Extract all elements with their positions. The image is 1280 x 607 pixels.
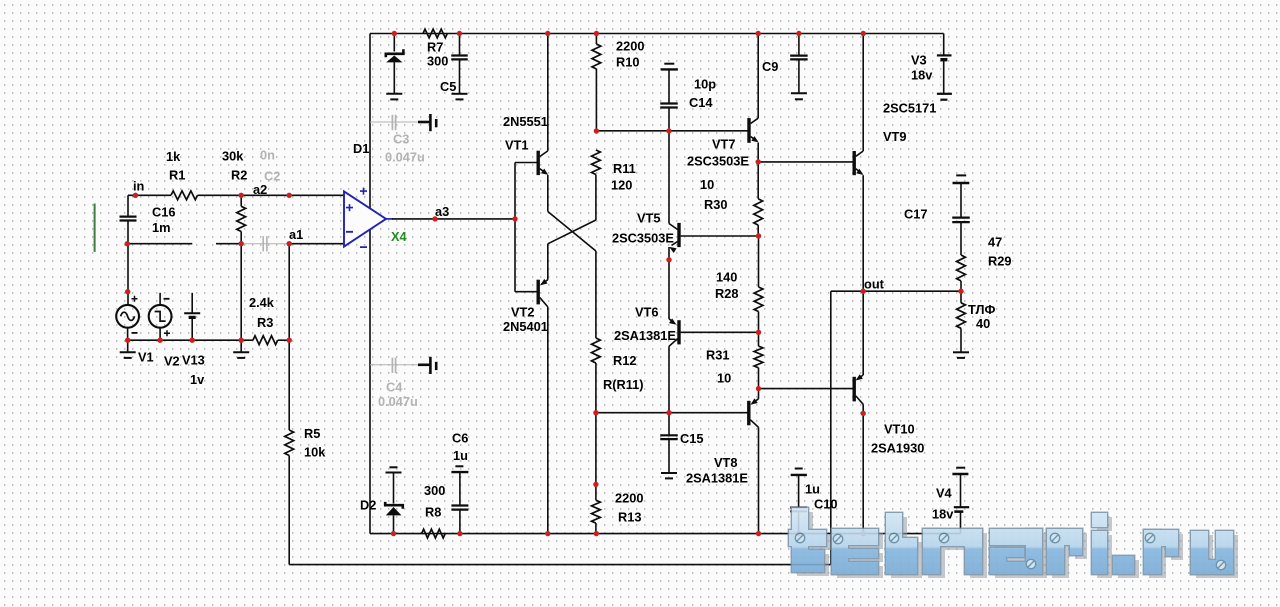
svg-text:2SA1930: 2SA1930 xyxy=(871,441,924,456)
resistor R12 xyxy=(592,338,601,363)
svg-text:C6: C6 xyxy=(452,431,468,446)
svg-text:2200: 2200 xyxy=(616,39,644,54)
resistor R10 xyxy=(595,34,597,45)
svg-text:2SA1381E: 2SA1381E xyxy=(614,328,676,343)
svg-text:R12: R12 xyxy=(613,353,636,368)
op-amp X4 xyxy=(344,191,386,246)
capacitor C15 xyxy=(668,413,670,436)
svg-text:10k: 10k xyxy=(304,445,326,460)
svg-text:C3: C3 xyxy=(393,132,409,147)
wire VT1 emitter cross to R12 xyxy=(548,212,596,252)
battery V4 xyxy=(956,467,965,469)
label V2 plus xyxy=(164,330,170,336)
wire V1 column xyxy=(127,244,129,306)
resistor R31 xyxy=(758,332,760,346)
wire input line in-R1-R2-a2 to op-amp xyxy=(128,194,171,196)
resistor R1 xyxy=(171,191,198,200)
svg-text:VT5: VT5 xyxy=(637,211,660,226)
resistor R30 xyxy=(757,162,759,199)
transistor VT10 2SA1930 xyxy=(853,377,856,402)
ground under V1 xyxy=(127,340,129,352)
resistor TLF 40 xyxy=(960,291,962,303)
svg-text:18v: 18v xyxy=(932,507,954,522)
svg-text:10: 10 xyxy=(717,371,731,386)
svg-text:1m: 1m xyxy=(152,220,171,235)
svg-text:C17: C17 xyxy=(904,207,927,222)
svg-text:VT1: VT1 xyxy=(505,138,528,153)
svg-text:VT9: VT9 xyxy=(883,129,906,144)
wire ground rail lower-left xyxy=(128,339,253,341)
wire left supply column xyxy=(369,34,371,534)
junction dots xyxy=(392,31,397,36)
wire VT5 emitter to VT6 xyxy=(668,260,670,319)
svg-text:2N5551: 2N5551 xyxy=(503,114,548,129)
svg-text:V2: V2 xyxy=(164,354,180,369)
capacitor C9 xyxy=(798,34,800,56)
wire V2 stub xyxy=(159,293,161,305)
svg-text:1k: 1k xyxy=(166,149,181,164)
svg-text:2.4k: 2.4k xyxy=(249,295,275,310)
capacitor C5 xyxy=(459,34,461,56)
svg-text:VT10: VT10 xyxy=(884,422,915,437)
wire VT8 emitter node to VT10 base xyxy=(759,388,853,390)
wire VT6 base to R31 node xyxy=(681,331,759,333)
svg-text:R13: R13 xyxy=(618,510,641,525)
transistor VT2 2N5401 xyxy=(537,280,540,305)
svg-text:VT2: VT2 xyxy=(511,305,534,320)
svg-text:R3: R3 xyxy=(257,315,273,330)
resistor R3 xyxy=(253,336,278,345)
svg-text:R11: R11 xyxy=(613,161,636,176)
svg-text:R(R11): R(R11) xyxy=(603,377,644,392)
svg-text:18v: 18v xyxy=(911,68,933,83)
wire feedback column up xyxy=(830,291,832,564)
svg-text:R8: R8 xyxy=(425,505,441,520)
svg-text:ТЛФ: ТЛФ xyxy=(968,302,995,317)
svg-text:10p: 10p xyxy=(694,77,716,92)
svg-text:C14: C14 xyxy=(689,95,713,110)
ground under TLF xyxy=(953,351,969,353)
source V2 step xyxy=(149,305,172,328)
svg-text:R31: R31 xyxy=(706,348,729,363)
resistor R29 xyxy=(957,255,966,281)
capacitor C4 disabled gray with terminal xyxy=(370,364,418,366)
wire R11 bottom cross to VT2 xyxy=(595,175,597,221)
svg-text:120: 120 xyxy=(611,178,632,193)
svg-text:C10: C10 xyxy=(814,497,837,512)
svg-text:C16: C16 xyxy=(152,205,175,220)
capacitor C16 xyxy=(127,195,129,216)
svg-text:30k: 30k xyxy=(222,149,244,164)
svg-text:2N5401: 2N5401 xyxy=(503,319,548,334)
svg-text:a1: a1 xyxy=(289,227,303,242)
diode D1 zener xyxy=(393,34,395,52)
svg-text:R2: R2 xyxy=(231,168,247,183)
svg-text:D1: D1 xyxy=(353,141,369,156)
wire top supply rail xyxy=(370,33,944,35)
ground at R3 node xyxy=(240,340,242,352)
svg-text:47: 47 xyxy=(988,235,1002,250)
svg-text:V13: V13 xyxy=(182,353,205,368)
transistor VT1 2N5551 xyxy=(537,151,540,175)
svg-text:X4: X4 xyxy=(391,229,408,244)
wire a1 line segments xyxy=(128,243,192,245)
wire out line xyxy=(831,290,961,292)
wire R12 node to R13 xyxy=(595,413,597,501)
svg-text:140: 140 xyxy=(716,270,737,285)
resistor R7 xyxy=(423,29,447,38)
battery V13 xyxy=(191,293,193,313)
watermark tehnari.ru xyxy=(788,507,1238,578)
svg-text:D2: D2 xyxy=(360,498,376,513)
resistor R13 xyxy=(592,500,601,523)
svg-text:2SA1381E: 2SA1381E xyxy=(686,471,748,486)
svg-text:R28: R28 xyxy=(715,286,738,301)
label V2 minus xyxy=(164,298,170,300)
svg-text:2SC3503E: 2SC3503E xyxy=(612,231,674,246)
svg-text:C15: C15 xyxy=(680,431,703,446)
node green marker line xyxy=(94,204,96,252)
svg-text:R30: R30 xyxy=(704,197,727,212)
capacitor C3 disabled gray with terminal xyxy=(370,121,418,123)
transistor VT6 2SA1381E xyxy=(669,319,672,321)
svg-text:a2: a2 xyxy=(253,182,267,197)
svg-text:V4: V4 xyxy=(936,486,953,501)
resistor R8 xyxy=(422,529,446,538)
capacitor C6 xyxy=(455,465,463,467)
svg-text:2SC3503E: 2SC3503E xyxy=(687,154,749,169)
capacitor C2 disabled gray xyxy=(241,243,289,245)
svg-text:C4: C4 xyxy=(386,380,403,395)
svg-text:V1: V1 xyxy=(138,350,154,365)
svg-text:C5: C5 xyxy=(440,79,456,94)
transistor VT9 2SC5171 xyxy=(853,151,856,175)
svg-text:VT7: VT7 xyxy=(712,137,735,152)
wire rail y413 xyxy=(596,412,748,414)
svg-text:in: in xyxy=(133,179,145,194)
svg-text:40: 40 xyxy=(976,316,990,331)
wire op-amp output a3 xyxy=(392,218,515,220)
svg-text:0.047u: 0.047u xyxy=(385,150,425,165)
wire bottom supply rail xyxy=(370,533,961,535)
battery V3 xyxy=(943,34,945,56)
resistor R28 xyxy=(758,236,760,287)
svg-text:C9: C9 xyxy=(762,59,778,74)
svg-text:2SC5171: 2SC5171 xyxy=(883,101,936,116)
svg-text:1u: 1u xyxy=(453,448,468,463)
svg-text:a3: a3 xyxy=(435,204,449,219)
svg-text:VT8: VT8 xyxy=(714,455,737,470)
resistor R5 xyxy=(285,430,294,456)
wire VT5 base to R30 node xyxy=(681,235,759,237)
capacitor C14 xyxy=(664,63,674,65)
transistor VT5 2SC3503E xyxy=(668,131,670,224)
wire feedback bottom xyxy=(288,456,290,565)
capacitor C10 xyxy=(795,468,803,470)
svg-text:R1: R1 xyxy=(169,168,185,183)
wire rail y131 R10 to VT7 xyxy=(596,130,747,132)
svg-text:R5: R5 xyxy=(304,426,320,441)
label V1 plus xyxy=(132,296,138,302)
svg-text:1u: 1u xyxy=(805,482,820,497)
resistor R11 xyxy=(592,150,601,175)
svg-text:R7: R7 xyxy=(427,40,443,55)
transistor VT8 2SA1381E xyxy=(747,401,750,426)
svg-text:VT6: VT6 xyxy=(635,305,658,320)
resistor R2 xyxy=(240,195,242,206)
svg-text:10: 10 xyxy=(700,177,714,192)
capacitor C17 xyxy=(956,174,966,176)
svg-text:R10: R10 xyxy=(616,55,639,70)
svg-text:300: 300 xyxy=(424,483,445,498)
transistor VT7 2SC3503E xyxy=(747,118,750,143)
wire base column a3 to VT1 VT2 xyxy=(514,163,516,292)
svg-text:2200: 2200 xyxy=(615,491,643,506)
svg-text:R29: R29 xyxy=(988,254,1011,269)
svg-text:0.047u: 0.047u xyxy=(378,394,418,409)
svg-text:out: out xyxy=(864,277,885,292)
diode D2 zener xyxy=(386,472,402,474)
svg-text:0n: 0n xyxy=(260,148,275,163)
wire VT7 emitter to VT9 base xyxy=(758,161,853,163)
svg-text:300: 300 xyxy=(427,54,448,69)
wire a1 column down xyxy=(288,244,290,430)
svg-text:1v: 1v xyxy=(190,372,205,387)
svg-text:V3: V3 xyxy=(911,53,927,68)
label V1 minus xyxy=(132,332,138,334)
source V1 sine xyxy=(116,305,139,328)
